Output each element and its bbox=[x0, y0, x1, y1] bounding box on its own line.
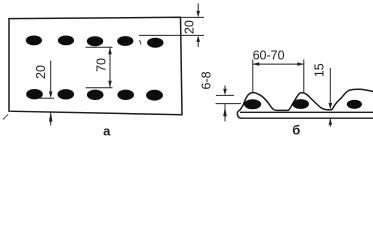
svg-text:б: б bbox=[292, 122, 300, 137]
svg-text:а: а bbox=[103, 124, 111, 139]
svg-text:70: 70 bbox=[94, 58, 108, 72]
svg-text:60-70: 60-70 bbox=[253, 48, 285, 62]
svg-text:15: 15 bbox=[313, 63, 327, 77]
svg-text:20: 20 bbox=[183, 20, 197, 34]
svg-text:6-8: 6-8 bbox=[199, 71, 213, 89]
svg-text:20: 20 bbox=[34, 65, 48, 79]
